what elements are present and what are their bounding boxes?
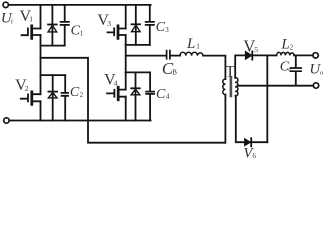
transformer T primary winding: [223, 79, 226, 95]
svg-text:1: 1: [29, 15, 33, 24]
svg-text:6: 6: [252, 152, 256, 158]
label C1: [71, 24, 84, 39]
label V6: [243, 145, 256, 161]
capacitor C6 output: [291, 55, 302, 85]
diode VD1 (antiparallel): [48, 5, 57, 46]
node V3 cell bottom: [126, 44, 150, 46]
svg-text:1: 1: [196, 43, 200, 51]
transistor V2: [21, 75, 41, 120]
capacitor C1: [61, 5, 69, 46]
output terminal minus: [313, 83, 318, 88]
svg-text:2: 2: [80, 91, 84, 99]
svg-text:C: C: [156, 20, 166, 35]
svg-text:L: L: [186, 36, 195, 52]
wire primary bottom lead: [224, 95, 226, 143]
input terminal bottom-left: [4, 118, 9, 123]
diode VD4 (antiparallel): [131, 72, 140, 120]
svg-text:L: L: [280, 37, 289, 53]
node V4 cell top: [126, 71, 150, 73]
label C6 output: [280, 60, 292, 75]
wire L2 to output plus terminal: [294, 54, 313, 56]
wire secondary center tap to output minus: [237, 85, 313, 87]
svg-text:C: C: [70, 85, 80, 100]
label V1: [20, 8, 34, 25]
label V5: [243, 36, 258, 55]
transistor V4: [107, 72, 126, 120]
diode V6: [245, 138, 268, 146]
wire secondary bottom lead: [236, 96, 245, 142]
svg-text:4: 4: [166, 93, 170, 101]
svg-text:5: 5: [254, 45, 258, 54]
label CB: [162, 59, 177, 78]
capacitor CB (blocking): [167, 51, 170, 59]
svg-text:2: 2: [25, 84, 29, 93]
diode VD3 (antiparallel): [132, 5, 141, 45]
diode VD2 (antiparallel): [48, 75, 57, 120]
label Ui: [1, 11, 13, 27]
diode V5: [246, 51, 268, 59]
wire top rail: [9, 4, 151, 6]
label C3: [156, 20, 170, 35]
label V4: [104, 72, 118, 89]
capacitor C2: [62, 75, 68, 120]
svg-text:B: B: [172, 68, 177, 76]
wire bottom rail: [9, 120, 150, 122]
label C4: [156, 87, 170, 102]
svg-text:T: T: [225, 63, 235, 80]
transistor V3: [108, 5, 126, 45]
capacitor C3: [146, 5, 154, 45]
svg-text:1: 1: [80, 30, 84, 38]
wire L1 to transformer primary top: [203, 56, 225, 79]
wire leg-A midpoint: [40, 46, 42, 76]
wire leg-A tap to primary bottom: [41, 58, 226, 143]
transformer T secondary winding: [235, 78, 238, 96]
wire leg-B tap toward CB: [126, 55, 166, 57]
svg-text:2: 2: [290, 43, 294, 51]
label L2: [280, 37, 293, 53]
svg-text:4: 4: [114, 79, 118, 88]
wire V5/V6 cathode junction to L2: [267, 54, 276, 56]
output terminal plus: [313, 53, 318, 58]
label L1: [186, 36, 200, 52]
transistor V1: [22, 5, 41, 46]
inductor L2: [277, 52, 294, 55]
wire CB to L1: [171, 55, 180, 57]
label V2: [15, 77, 29, 94]
svg-text:i: i: [11, 16, 13, 25]
wire leg-B midpoint: [125, 45, 127, 73]
node V1 cell bottom: [41, 45, 65, 47]
label V3: [97, 12, 111, 29]
inductor L1: [180, 52, 203, 55]
wire secondary top lead to V5: [235, 55, 245, 77]
svg-text:C: C: [156, 87, 166, 102]
wire V6 cathode riser: [266, 55, 268, 142]
svg-text:o: o: [288, 66, 291, 73]
label Uo: [309, 62, 323, 78]
transformer core: [230, 77, 233, 98]
capacitor C4: [146, 72, 154, 120]
node V2 cell top: [41, 74, 66, 76]
input terminal top-left: [3, 2, 8, 7]
svg-text:3: 3: [107, 19, 111, 28]
label C2: [70, 85, 84, 100]
svg-text:3: 3: [165, 26, 169, 34]
label T: [225, 63, 235, 80]
